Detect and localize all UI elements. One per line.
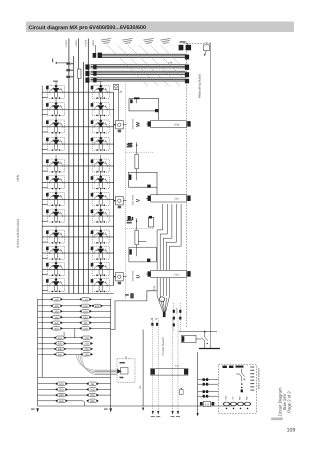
svg-text:41D: 41D	[63, 331, 66, 336]
svg-text:61D: 61D	[58, 337, 63, 340]
svg-text:163: 163	[139, 385, 142, 390]
svg-text:109: 109	[287, 427, 296, 433]
svg-text:45D: 45D	[54, 322, 59, 325]
svg-text:Page 2 of 2: Page 2 of 2	[287, 391, 292, 413]
resistor R13 (gate chain)	[135, 218, 138, 256]
PE feed stub	[56, 62, 69, 64]
IGBT module V11 left W1	[46, 81, 65, 99]
current sensor L1B	[113, 84, 118, 89]
gate connector 21U	[148, 270, 191, 277]
rail arrow	[157, 411, 159, 415]
wire row U3	[42, 269, 113, 274]
left vertical rail (module bus)	[41, 86, 43, 378]
svg-text:+UZK1: +UZK1	[65, 39, 68, 47]
svg-text:Power Board: Power Board	[161, 337, 165, 355]
NTC sensor box	[117, 356, 135, 382]
module column top labels	[53, 81, 103, 82]
svg-text:72D: 72D	[84, 348, 89, 351]
IGBT module V31 left U1	[46, 226, 65, 244]
title bar	[26, 22, 294, 33]
bus band 2	[91, 71, 186, 74]
ground arrow mid	[109, 408, 112, 412]
PE terminator bar	[199, 348, 220, 350]
DC link wire -UZK1	[78, 39, 80, 294]
DC link wire PE	[83, 62, 85, 294]
bus band UZK top	[100, 54, 186, 57]
power board dotted rails	[153, 318, 178, 411]
wire row V1	[42, 166, 113, 171]
wire row U4	[42, 286, 113, 291]
left vertical rail (PE)	[37, 299, 39, 406]
svg-text:A10A: A10A	[175, 308, 178, 314]
svg-text:71D: 71D	[84, 343, 89, 346]
svg-text:84D: 84D	[59, 400, 64, 403]
svg-text:L1B: L1B	[118, 91, 123, 94]
gate harness bundle to X10	[136, 204, 181, 312]
bus band 17B	[91, 65, 186, 68]
svg-text:52D: 52D	[83, 310, 88, 313]
svg-text:RB-: RB-	[246, 396, 249, 400]
svg-text:U: U	[135, 274, 141, 278]
svg-text:53D: 53D	[83, 316, 88, 319]
IGBT module V25 left V3	[46, 188, 65, 206]
svg-text:51D: 51D	[83, 305, 88, 308]
svg-text:46D: 46D	[54, 327, 59, 330]
IGBT module V12 right W1	[91, 81, 110, 99]
IGBT module V32 right U1	[91, 226, 110, 244]
gate connector 21W	[148, 120, 191, 127]
svg-text:5D: 5D	[84, 322, 87, 325]
wire row W4	[42, 144, 113, 149]
svg-text:0V: 0V	[232, 396, 235, 399]
svg-text:91D: 91D	[90, 388, 95, 391]
chopper rail vertical	[197, 352, 199, 413]
IGBT module V14 right W2	[91, 99, 110, 117]
signal tag rows group 2	[38, 328, 93, 354]
ground arrow left	[36, 408, 39, 412]
svg-text:44D: 44D	[54, 316, 59, 319]
signal tag rows group 1	[38, 299, 111, 328]
wire row U1	[42, 237, 113, 242]
resistor R12 (gate chain)	[135, 142, 138, 180]
IGBT module V24 right V2	[91, 172, 110, 190]
svg-text:8 P/01 026 EN-31/01: 8 P/01 026 EN-31/01	[16, 218, 20, 247]
bus tag F1	[66, 63, 70, 65]
harness tiny labels	[101, 38, 172, 44]
svg-text:W: W	[135, 122, 141, 127]
connector X11	[151, 369, 189, 376]
svg-text:9D: 9D	[91, 383, 94, 386]
svg-text:93D: 93D	[90, 400, 95, 403]
svg-text:63D: 63D	[58, 348, 63, 351]
svg-text:X12: X12	[205, 403, 210, 406]
X20 wire pairs	[198, 380, 219, 397]
brake unit interface dashed box	[218, 365, 256, 413]
IGBT module V17 left W4	[46, 133, 65, 151]
svg-text:82D: 82D	[59, 388, 64, 391]
resistor R1 (dc link)	[78, 69, 81, 78]
bus left connector blobs	[85, 64, 96, 82]
power board dashed boundary	[125, 84, 154, 300]
svg-text:42D: 42D	[54, 305, 59, 308]
ribbon cable to NTC	[95, 370, 117, 374]
svg-text:-UZK1: -UZK1	[75, 39, 78, 47]
IGBT module V34 right U2	[91, 242, 110, 260]
IGBT module V15 left W3	[46, 116, 65, 134]
svg-text:21W: 21W	[174, 123, 180, 126]
svg-text:Gate Drive: Gate Drive	[131, 118, 134, 129]
svg-text:74: 74	[205, 41, 208, 44]
svg-text:21V: 21V	[174, 198, 179, 201]
svg-text:+UZK2: +UZK2	[85, 39, 88, 47]
harness diagonal cable marks	[107, 45, 183, 86]
svg-text:-UZK2: -UZK2	[92, 39, 95, 47]
phase box V	[129, 172, 158, 194]
svg-text:73D: 73D	[84, 353, 89, 356]
rail arrow	[177, 411, 179, 415]
bus tag F2	[66, 69, 70, 71]
wire row W2	[42, 110, 113, 115]
IGBT module V16 right W3	[91, 116, 110, 134]
svg-text:HT5I: HT5I	[16, 175, 20, 182]
svg-text:X11: X11	[175, 364, 180, 367]
svg-text:Gate Drive: Gate Drive	[131, 194, 134, 205]
IGBT module V33 left U2	[46, 242, 65, 260]
signal tag rows group 3	[38, 384, 111, 406]
IGBT module V13 left W2	[46, 99, 65, 117]
module area bottom wire	[42, 293, 113, 295]
brake transistor Q20	[236, 369, 245, 382]
IGBT module V35 left U3	[46, 258, 65, 276]
wire row V2	[42, 183, 113, 188]
svg-text:RB+: RB+	[239, 395, 242, 400]
phase output vertical	[113, 92, 115, 285]
power board left boundary	[142, 330, 144, 407]
svg-text:+24V: +24V	[225, 395, 228, 401]
IGBT module V26 right V3	[91, 188, 110, 206]
wire row W3	[42, 127, 113, 132]
svg-text:21U: 21U	[174, 273, 179, 276]
wire row V4	[42, 216, 113, 221]
fuse F7 (power board)	[180, 390, 184, 395]
wire row V3	[42, 199, 113, 204]
IGBT module V36 right U3	[91, 258, 110, 276]
wire row W1	[42, 92, 113, 97]
wire row U2	[42, 253, 113, 258]
IGBT module V23 left V2	[46, 172, 65, 190]
svg-text:83D: 83D	[59, 394, 64, 397]
IGBT module V18 right W4	[91, 133, 110, 151]
current transducer U	[114, 273, 127, 281]
connector X12 boxed label	[203, 401, 210, 406]
IGBT module V28 right V4	[91, 205, 110, 223]
phase V-U link wire	[42, 225, 113, 227]
phase W-V link wire	[42, 153, 113, 155]
power board boundary	[111, 247, 157, 329]
svg-text:+1D: +1D	[83, 298, 88, 301]
IGBT module V38 right U4	[91, 275, 110, 293]
measuring board dashed boundary	[184, 43, 211, 349]
rail arrow	[152, 411, 154, 415]
current transducer V	[114, 197, 127, 205]
phase box W	[129, 99, 159, 121]
svg-text:V: V	[135, 198, 141, 202]
brake interface pin list	[250, 367, 254, 391]
bus band 3	[91, 78, 186, 81]
svg-text:Brake Unit Interface: Brake Unit Interface	[257, 367, 260, 389]
bottom PE wire	[38, 405, 236, 407]
scan bleed marks	[271, 418, 283, 421]
IGBT module V22 right V1	[91, 155, 110, 173]
svg-text:X10: X10	[153, 285, 156, 290]
IGBT module V27 left V4	[46, 205, 65, 223]
svg-text:Circuit diagram MX pro 6V400/5: Circuit diagram MX pro 6V400/500...6V630…	[28, 25, 145, 31]
brake chopper circuit	[179, 332, 218, 349]
bus tag F3	[66, 76, 70, 78]
sensor box X4 with arrow	[204, 45, 210, 56]
DC link wire +UZK1	[68, 39, 70, 294]
svg-text:Measuring Board: Measuring Board	[197, 74, 201, 98]
IGBT module V21 left V1	[46, 155, 65, 173]
collector vertical to bottom	[110, 299, 112, 408]
current transducer W	[114, 121, 127, 129]
svg-text:92D: 92D	[90, 394, 95, 397]
svg-text:43D: 43D	[54, 310, 59, 313]
DC link wire +UZK2	[87, 39, 89, 294]
gate connector 21V	[148, 195, 191, 202]
svg-text:62D: 62D	[58, 343, 63, 346]
svg-text:41D: 41D	[54, 298, 59, 301]
brake interface top pins	[223, 366, 244, 368]
svg-text:81D: 81D	[59, 383, 64, 386]
svg-text:64D: 64D	[58, 353, 63, 356]
gate component V	[128, 216, 134, 220]
gate component W	[128, 143, 133, 147]
connector X3 pins (top cluster)	[179, 45, 192, 51]
ribbon bend curves	[77, 355, 96, 374]
bus pins on measuring rail	[185, 55, 189, 84]
svg-text:+2D: +2D	[84, 337, 89, 340]
IGBT module V37 left U4	[46, 275, 65, 293]
DC link wire -UZK2	[73, 56, 75, 294]
svg-text:54D: 54D	[83, 327, 88, 330]
rail arrow	[172, 411, 174, 415]
svg-text:E2D: E2D	[95, 305, 100, 308]
svg-text:Gate Drive: Gate Drive	[131, 270, 134, 281]
svg-text:25: 25	[155, 317, 158, 320]
A10A links	[174, 303, 181, 332]
